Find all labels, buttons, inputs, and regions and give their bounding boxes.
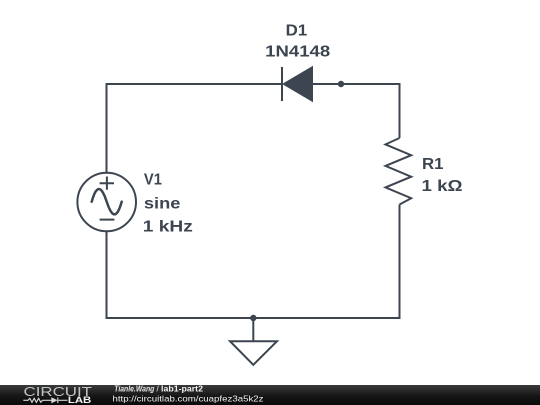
CircuitLab logo [0,385,110,405]
wire right vertical upper [399,83,401,138]
svg-text:D1: D1 [286,23,308,40]
node junction dot (ground node) [250,315,256,321]
svg-text:R1: R1 [422,156,444,173]
wire bottom horizontal [106,317,401,319]
diode D1 [265,23,330,102]
wire left vertical upper [106,83,108,173]
title text [110,385,540,405]
voltage source V1 [77,171,192,235]
svg-text:V1: V1 [144,171,162,188]
resistor R1 [386,138,463,205]
wire top-right horizontal [312,83,401,85]
wire top-left horizontal [107,83,283,85]
svg-text:Tianle.Wang: Tianle.Wang [114,385,154,394]
svg-text:sine: sine [144,196,181,213]
svg-text:1 kΩ: 1 kΩ [422,178,463,195]
node junction dot (diode-resistor node) [338,81,344,87]
svg-text:http://circuitlab.com/cuapfez3: http://circuitlab.com/cuapfez3a5k2z [113,394,264,404]
wire left vertical lower [106,231,108,319]
svg-text:LAB: LAB [68,395,92,405]
svg-text:1N4148: 1N4148 [265,44,330,61]
svg-text:lab1-part2: lab1-part2 [161,385,204,394]
svg-text:1 kHz: 1 kHz [143,219,193,236]
ground [230,318,277,365]
wire right vertical lower [399,205,401,320]
svg-text:/: / [157,385,160,394]
